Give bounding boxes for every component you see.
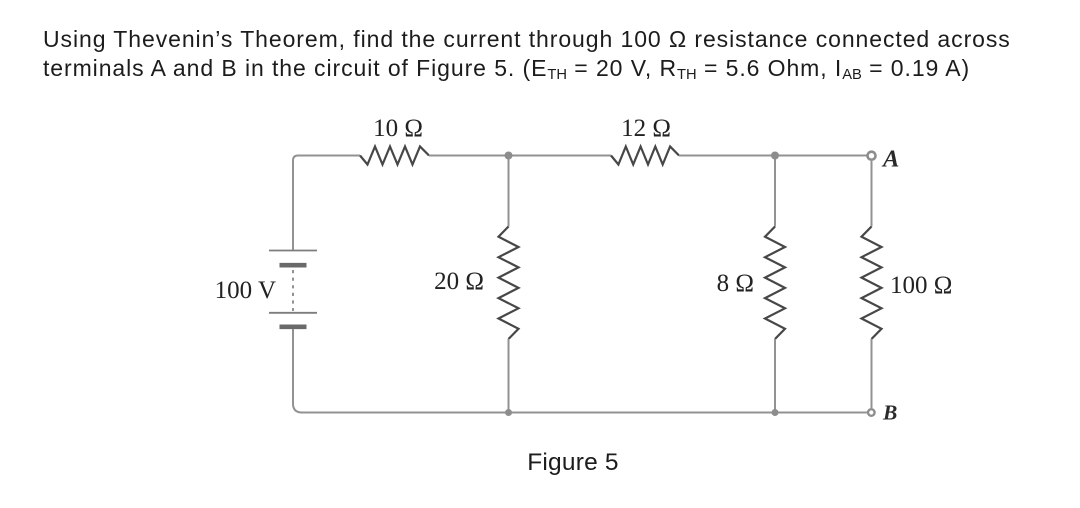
svg-text:8 Ω: 8 Ω bbox=[717, 270, 754, 297]
node N4 junction dot (bottom of 8-ohm branch) bbox=[772, 409, 779, 416]
wire: 20-ohm resistor bottom down to bottom rail node N3 bbox=[508, 339, 510, 413]
svg-text:10 Ω: 10 Ω bbox=[373, 115, 423, 142]
svg-text:20 Ω: 20 Ω bbox=[434, 268, 484, 295]
battery V1: bottom cell short thick plate bbox=[280, 324, 307, 329]
svg-text:100 Ω: 100 Ω bbox=[890, 272, 952, 299]
svg-text:B: B bbox=[882, 401, 897, 425]
resistor R3 20 ohm (vertical, middle branch) bbox=[499, 227, 519, 340]
svg-text:A: A bbox=[881, 146, 899, 173]
battery V1: top cell short thick plate bbox=[280, 263, 307, 268]
figure caption bbox=[0, 449, 1080, 477]
resistor R1 10 ohm (horizontal, top-left) bbox=[360, 147, 429, 165]
battery V1 100 V: top cell long plate bbox=[269, 250, 317, 252]
node N1 junction dot (top of 20-ohm branch) bbox=[505, 152, 513, 160]
svg-text:12 Ω: 12 Ω bbox=[621, 115, 671, 142]
resistor R4 8 ohm (vertical branch) bbox=[765, 227, 785, 340]
wire: 8-ohm resistor bottom down to bottom rail node N4 bbox=[774, 339, 776, 413]
wire: battery negative down and along bottom to terminal B bbox=[293, 329, 867, 413]
battery V1: bottom cell long plate bbox=[269, 312, 317, 314]
battery V1: dashed link between cells bbox=[292, 270, 294, 311]
wire: battery positive up and along top to 10-ohm resistor left lead bbox=[293, 156, 360, 251]
terminal B open circle bbox=[868, 409, 875, 416]
wire: top middle, from R1 right lead through node N1 to 12-ohm resistor bbox=[429, 155, 611, 157]
wire: node N2 down to 8-ohm resistor top bbox=[774, 156, 776, 227]
wire: 100-ohm resistor bottom down to terminal B bbox=[871, 339, 873, 408]
wire: top right, from R2 right lead through node N2 to terminal A bbox=[679, 155, 867, 157]
svg-text:100 V: 100 V bbox=[215, 277, 276, 304]
terminal A open circle bbox=[868, 152, 876, 160]
node N2 junction dot (top of 8-ohm branch) bbox=[771, 152, 779, 160]
resistor R5 100 ohm (vertical, load between A and B) bbox=[862, 227, 882, 340]
wire: terminal A down to 100-ohm resistor top bbox=[871, 161, 873, 227]
wire: node N1 down to 20-ohm resistor top bbox=[508, 156, 510, 227]
resistor R2 12 ohm (horizontal, top-right) bbox=[611, 147, 679, 165]
node N3 junction dot (bottom of 20-ohm branch) bbox=[505, 409, 512, 416]
